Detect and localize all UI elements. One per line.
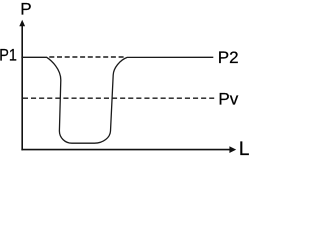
- svg-text:P2: P2: [218, 48, 239, 67]
- x-axis arrowhead: [229, 146, 236, 153]
- dashed line at Pv level: [23, 97, 214, 99]
- x-axis L (horizontal): [21, 149, 230, 151]
- svg-text:L: L: [239, 139, 250, 160]
- y-axis arrowhead: [19, 20, 25, 27]
- y-axis P (vertical): [21, 25, 23, 151]
- svg-text:Pv: Pv: [218, 89, 238, 108]
- dashed line at P1/P2 level across dip: [49, 56, 124, 58]
- svg-text:P1: P1: [0, 46, 17, 65]
- pressure curve P1 -> dip -> P2: [21, 57, 213, 143]
- svg-text:P: P: [20, 0, 31, 19]
